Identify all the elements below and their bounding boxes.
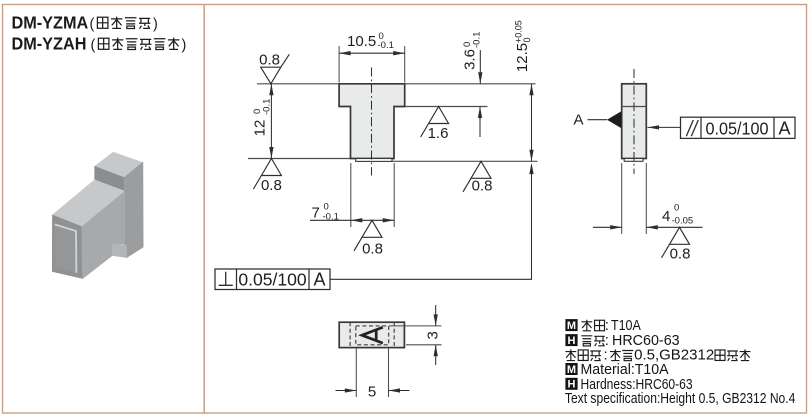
datum A label and leader [574,112,608,129]
parallelism feature control frame 0.05/100 A [681,117,796,138]
3D pictorial: long front face [82,192,124,279]
svg-text:0: 0 [674,203,679,214]
svg-text:Text specification:Height 0.5,: Text specification:Height 0.5, GB2312 No… [565,390,796,407]
svg-text:-0.1: -0.1 [378,40,394,51]
svg-text:DM-YZMA: DM-YZMA [12,13,89,33]
svg-text:3: 3 [425,331,442,339]
svg-text:12: 12 [252,120,269,137]
side view: body outline [622,84,647,159]
datum A solid triangle [607,111,621,128]
spec note line 3: text spec (Chinese) [565,347,750,364]
svg-text:(: ( [91,38,96,54]
front view: bottom line right (12.5 level) [392,160,538,162]
bottom view: hidden boss outline 5x3 [356,326,389,345]
leader from perpendicularity frame up to bottom surface [330,163,534,280]
spec note line 1: M material T10A [565,317,641,334]
front view: vertical center line [371,68,373,176]
front view: T-shaped punch outline [339,84,405,159]
bottom view: hidden stem edges [350,322,394,347]
surface finish 0.8 below 7 dim [354,220,383,257]
svg-text:0.8: 0.8 [261,177,282,194]
spec note line 6: Text specification [565,390,796,407]
3D pictorial: left end face (letter face) [52,215,82,278]
svg-text:): ) [182,38,187,54]
svg-text:-0.05: -0.05 [672,216,694,227]
side view: vertical center line [633,69,635,174]
dimension 12.5 +0.05/0 (total height) [514,20,534,161]
column divider line [203,5,205,414]
svg-text:A: A [778,118,790,138]
title line 2: DM-YZAH (stamping punch assembly) [12,34,187,54]
dimension 3 (boss depth) [389,305,442,365]
front view: raised letter boss [356,159,392,162]
bottom view: engraved letter A (rotated) [362,327,383,343]
perpendicularity feature control frame 0.05/100 A [215,269,330,290]
front view: bottom line left (12 level) [248,158,351,160]
svg-text:-0.1: -0.1 [261,99,272,115]
svg-text:0.8: 0.8 [472,178,493,195]
svg-text:3.6: 3.6 [462,49,479,70]
svg-text:(: ( [90,17,95,33]
3D pictorial: right end face [124,163,143,258]
dimension 12 0/-0.1 (left height) [252,84,274,159]
svg-text:A: A [313,269,325,289]
surface finish 0.8 side view [662,227,691,262]
svg-text:A: A [574,112,584,129]
svg-text:-0.1: -0.1 [323,212,339,223]
3D pictorial: notch inner face [112,244,127,258]
dimension 4 0/-0.05 (depth) [593,163,703,234]
svg-text:5: 5 [368,384,376,401]
svg-text:-0.1: -0.1 [471,32,482,48]
3D pictorial: stem top face [95,152,143,177]
leader arrow from parallelism frame to side face [648,125,681,129]
svg-text:0.05/100: 0.05/100 [705,119,768,139]
title line 1: DM-YZMA (stamping punch) [12,13,158,33]
svg-text:T10A: T10A [611,317,642,333]
dimension 3.6 0/-0.1 (flange thickness) [462,32,483,137]
surface finish 0.8 bottom left [253,159,281,195]
surface finish 0.8 bottom right [463,161,492,194]
dimension 5 (boss width) [336,349,410,401]
dimension 10.5 0/-0.1 (flange width) [339,31,405,83]
svg-text:10.5: 10.5 [347,33,376,50]
svg-text:7: 7 [312,205,320,222]
svg-text:0: 0 [522,37,532,42]
svg-text:4: 4 [662,208,670,225]
bottom view: outline [339,322,404,347]
svg-text:DM-YZAH: DM-YZAH [12,34,87,54]
3D pictorial of punch: flange top face [53,180,125,227]
svg-text:0.8: 0.8 [362,241,383,258]
svg-text:M: M [567,364,576,376]
front view: flange step line right extension [394,106,488,108]
surface finish 1.6 on flange underside [421,107,449,143]
svg-text:12.5: 12.5 [514,43,531,72]
dimension 7 0/-0.1 (stem width) [310,163,394,227]
svg-text:1.6: 1.6 [428,125,449,142]
spec note line 2: H hardness HRC60-63 [565,332,679,349]
svg-text:0.8: 0.8 [259,51,280,68]
spec note line 4: M Material:T10A [565,362,668,378]
front view: top surface line [257,83,536,85]
3D pictorial: raised letter panel [55,224,77,273]
surface finish 0.8 top left [259,51,289,84]
3D pictorial: stem left dark face [95,167,125,191]
svg-text:): ) [153,17,158,33]
svg-text:0.8: 0.8 [670,246,691,263]
svg-text:H: H [568,335,576,347]
svg-text:M: M [567,320,576,332]
side view: raised letter boss [624,159,643,162]
svg-text:0.05/100: 0.05/100 [238,269,306,289]
spec note line 5: H Hardness:HRC60-63 [565,376,692,393]
